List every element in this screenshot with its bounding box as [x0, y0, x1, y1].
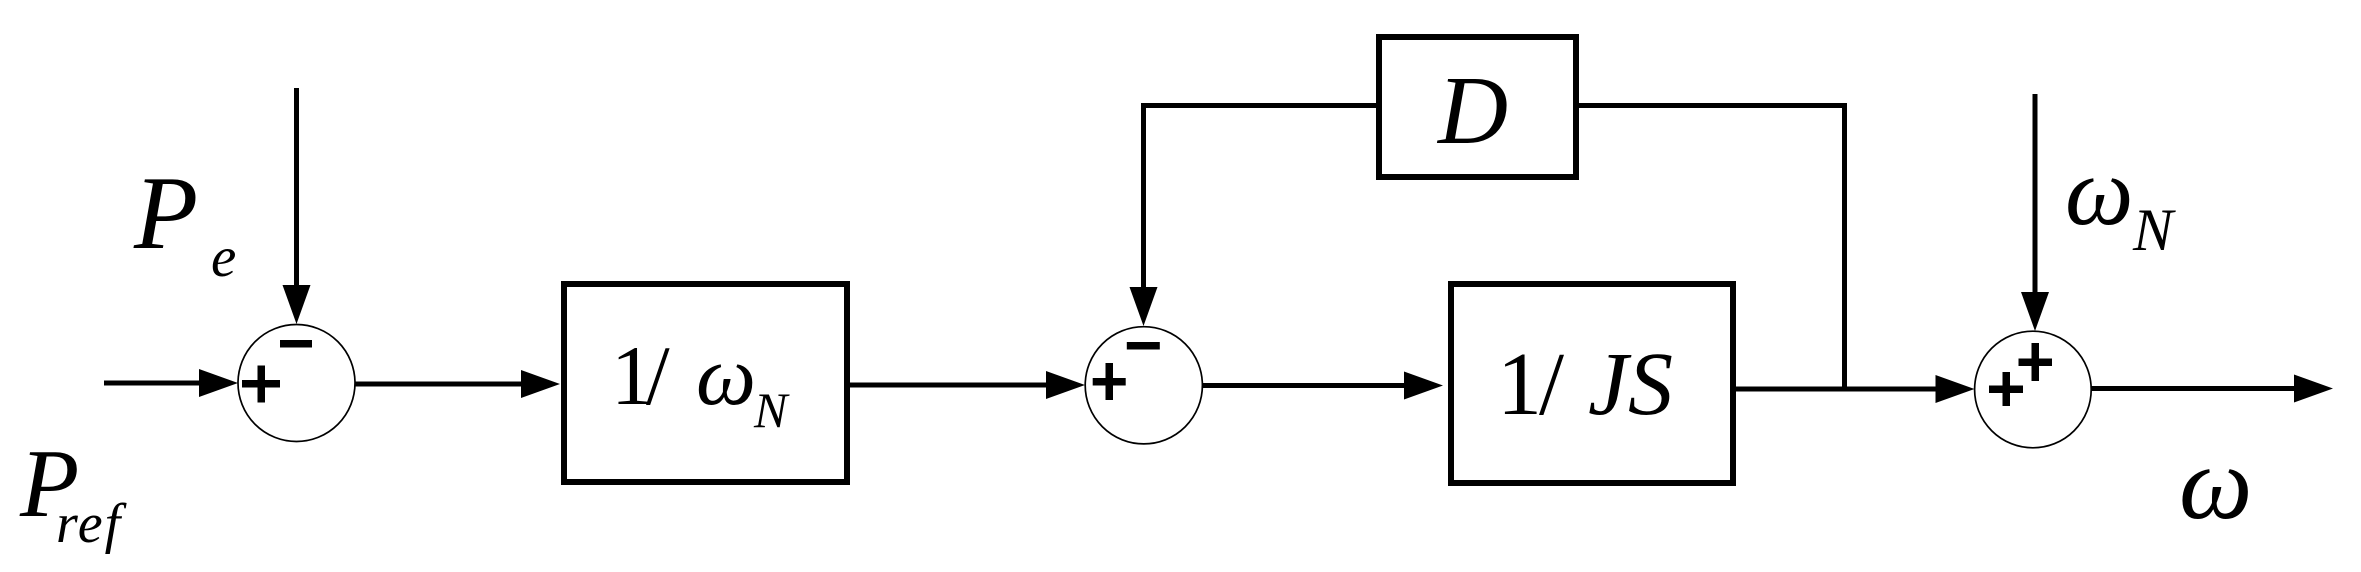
wire vertical arrow wN into S3 [2021, 94, 2049, 331]
svg-text:ω: ω [2065, 138, 2134, 245]
svg-text:e: e [211, 226, 236, 289]
label Pref [19, 430, 128, 555]
wire S2 to block B2 [1203, 372, 1444, 400]
block D [1379, 37, 1576, 177]
block B2 gain 1/JS [1451, 284, 1733, 483]
wire input arrow into summing junction S1 [104, 369, 238, 397]
label wN [2065, 138, 2176, 263]
wire vertical arrow Pe into summing junction S1 [283, 88, 311, 324]
svg-text:ref: ref [56, 493, 128, 555]
svg-text:N: N [753, 382, 790, 438]
wire output arrow from S3 [2091, 375, 2333, 403]
label Pe [133, 154, 236, 289]
summing junction S1 [238, 325, 355, 442]
svg-text:ω: ω [2179, 426, 2252, 541]
svg-text:P: P [133, 154, 198, 271]
wire B1 to summing junction S2 [850, 371, 1085, 399]
summing junction S3 [1975, 331, 2092, 448]
label omega output [2179, 426, 2252, 541]
summing junction S2 [1085, 327, 1202, 444]
wire B2 to summing junction S3 [1736, 375, 1975, 403]
svg-text:/: / [646, 329, 670, 423]
svg-text:JS: JS [1588, 335, 1673, 434]
svg-text:ω: ω [696, 329, 756, 423]
svg-text:D: D [1436, 57, 1508, 164]
svg-text:/: / [1539, 335, 1564, 434]
svg-text:1: 1 [1497, 335, 1542, 434]
svg-text:N: N [2132, 197, 2176, 263]
block B1 gain 1/wN [564, 284, 847, 482]
wire feedback from D down into S2 [1130, 106, 1377, 327]
wire D right side down to output line [1579, 106, 1845, 392]
wire S1 to block B1 [355, 370, 560, 398]
